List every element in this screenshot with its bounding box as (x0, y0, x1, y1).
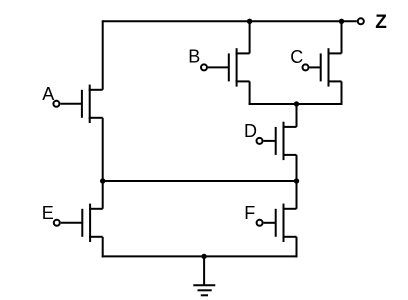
wire C drain to top rail (341, 21, 343, 53)
node BC sources / D drain (294, 101, 299, 106)
wire middle rail (103, 180, 297, 182)
wire C source down to node BC (341, 81, 343, 105)
wire A source down to E drain through middle rail (102, 118, 104, 209)
node bottom rail / ground (201, 254, 206, 259)
wire F source to bottom rail (296, 237, 298, 258)
transistor D (257, 122, 297, 160)
output terminal Z (358, 18, 364, 24)
wire B drain to top rail (249, 21, 251, 53)
wire E source to bottom rail (102, 237, 104, 258)
wire B source down to node BC (249, 81, 251, 105)
node middle rail right (294, 178, 299, 183)
wire node BC horizontal (249, 103, 343, 105)
wire ground stem (203, 256, 205, 285)
node top rail / C drain (339, 19, 344, 24)
wire left column: top rail to A drain (102, 20, 104, 90)
ground (193, 285, 215, 295)
node top rail / B drain (247, 19, 252, 24)
wire D source down to middle rail (296, 155, 298, 181)
svg-text:Z: Z (375, 12, 387, 33)
transistor A (53, 85, 102, 123)
svg-text:B: B (188, 47, 200, 67)
wire D drain up to node BC (296, 104, 298, 127)
transistor B (201, 48, 250, 86)
svg-text:A: A (42, 84, 54, 104)
svg-text:D: D (244, 121, 257, 141)
svg-text:C: C (290, 47, 303, 67)
transistor F (257, 204, 297, 242)
svg-text:E: E (42, 203, 54, 223)
wire top rail VDD-side to output (103, 20, 357, 22)
transistor C (303, 48, 342, 86)
svg-text:F: F (244, 203, 255, 223)
wire F drain up to middle rail (296, 181, 298, 209)
node middle rail left (100, 178, 105, 183)
wire bottom rail (102, 255, 298, 257)
transistor E (54, 204, 103, 242)
